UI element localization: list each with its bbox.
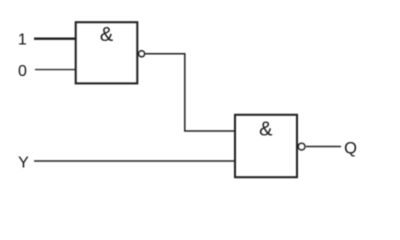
nand gate U2 output bubble <box>298 143 305 150</box>
svg-text:1: 1 <box>18 32 27 49</box>
wire input 1 <box>34 38 76 40</box>
wire U1 output to corner <box>145 54 235 131</box>
svg-text:&: & <box>100 24 114 46</box>
wire input Y <box>34 160 235 162</box>
nand gate U2 box <box>235 115 297 177</box>
svg-text:0: 0 <box>18 63 27 80</box>
svg-text:Y: Y <box>18 155 29 172</box>
svg-text:&: & <box>259 118 273 140</box>
wire U2 output to Q <box>306 146 341 148</box>
wire input 0 <box>35 69 76 71</box>
nand gate U1 box <box>76 22 138 83</box>
nand gate U1 output bubble <box>139 51 145 57</box>
svg-text:Q: Q <box>344 139 357 157</box>
